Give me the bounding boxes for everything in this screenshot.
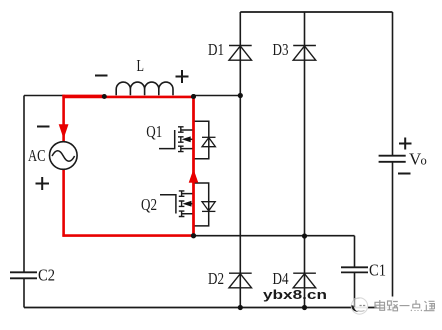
wire C1 branch upper xyxy=(354,236,356,267)
wire black segment L-node to D1 branch xyxy=(194,95,241,97)
wire left rail lower (C2 bottom to bottom rail) xyxy=(23,279,25,308)
label plus at Vo xyxy=(399,138,412,150)
wire top-left horizontal xyxy=(24,95,63,97)
char 一 xyxy=(400,305,410,307)
current arrow down (red) on AC top lead xyxy=(59,124,69,139)
wire red bottom horizontal xyxy=(62,234,193,237)
wire top rail xyxy=(240,11,392,13)
node dot D2 bottom xyxy=(238,305,243,310)
body diode D of Q1 xyxy=(202,137,216,146)
node dot at L/Q junction xyxy=(191,94,196,99)
svg-text:C2: C2 xyxy=(38,265,55,284)
transistor Q2 gate lead xyxy=(160,195,176,214)
transistor Q2 drain/source stubs xyxy=(182,194,193,214)
char 点 xyxy=(411,300,422,311)
wire left rail upper (to C2 top plate) xyxy=(23,96,25,273)
label minus at AC top xyxy=(37,126,50,128)
watermark logo icon xyxy=(351,298,367,314)
transistor Q1 drain/source stubs xyxy=(181,130,193,149)
label minus at Vo xyxy=(398,173,411,175)
node dot D1 junction xyxy=(238,93,243,98)
label plus right of L xyxy=(176,70,189,83)
svg-text:Q1: Q1 xyxy=(146,122,162,141)
wire red AC top lead xyxy=(62,95,65,142)
char 路 xyxy=(387,301,398,311)
svg-text:D4: D4 xyxy=(273,269,289,288)
svg-text:D2: D2 xyxy=(208,269,224,288)
wire D3/D4 branch vertical xyxy=(304,12,306,308)
capacitor C2 plates xyxy=(10,272,37,278)
svg-text:ybx8.cn: ybx8.cn xyxy=(263,287,327,302)
watermark text 电路一点通 (approximated glyphs) xyxy=(375,300,435,311)
label plus at AC bottom xyxy=(36,177,50,190)
svg-text:Q2: Q2 xyxy=(141,195,157,214)
body diode D of Q2 xyxy=(202,202,215,212)
char 通 xyxy=(424,301,435,311)
AC source circle xyxy=(50,142,78,170)
wire C1 branch fading through icon xyxy=(354,298,356,307)
transistor Q1 channel segments xyxy=(178,127,184,152)
wire red AC bottom lead xyxy=(62,169,65,236)
AC sine wave xyxy=(52,151,75,162)
current arrow up (red) on Q1/Q2 vertical xyxy=(189,169,198,182)
node dot red loop bottom junction xyxy=(191,233,196,238)
char 电 xyxy=(375,300,385,310)
watermark background patch xyxy=(377,297,442,316)
svg-text:AC: AC xyxy=(28,146,46,165)
transistor Q1 body arrow xyxy=(182,136,191,142)
svg-text:D1: D1 xyxy=(208,40,224,59)
wire right rail lower (Vo bottom plate to bottom rail) xyxy=(392,162,394,308)
node dot D4 junction xyxy=(302,233,307,238)
label minus left of L xyxy=(95,75,108,77)
diode D4 xyxy=(293,273,316,288)
wire red Q1/Q2 vertical (overlay pass) xyxy=(192,96,195,236)
wire mid horizontal (return to D4 and C1) xyxy=(194,235,355,237)
diode D2 xyxy=(229,273,252,288)
inductor L humps xyxy=(116,82,173,95)
svg-text:C1: C1 xyxy=(369,260,386,279)
node A dot at L/Q junction (overlay) xyxy=(191,94,196,99)
current arrow up (red) overlay xyxy=(189,169,198,182)
wire C1 branch lower xyxy=(354,273,356,308)
transistor Q2 body arrow xyxy=(183,201,192,207)
body diode loop of Q1 xyxy=(194,121,209,159)
capacitor C1 plates xyxy=(341,267,368,272)
diode D1 xyxy=(229,46,252,61)
svg-text:L: L xyxy=(137,56,145,75)
transistor Q1 gate lead xyxy=(159,130,175,149)
capacitor Vo plates xyxy=(379,156,406,162)
wire D1/D2 branch vertical xyxy=(239,12,241,308)
svg-text:D3: D3 xyxy=(273,40,289,59)
wire bottom rail xyxy=(24,307,393,309)
svg-text:o: o xyxy=(421,154,427,168)
wire red top horizontal through L xyxy=(62,96,194,97)
wire red Q1/Q2 vertical xyxy=(192,96,195,236)
node dot D4 bottom xyxy=(302,305,307,310)
node dot on red wire at x=104 xyxy=(102,94,107,99)
wire right rail upper (to Vo top plate) xyxy=(392,12,394,155)
transistor Q2 channel segments xyxy=(179,191,185,217)
diode D3 xyxy=(293,46,316,61)
node B dot at red loop bottom junction (overlay) xyxy=(191,233,196,238)
body diode loop of Q2 xyxy=(194,183,209,226)
